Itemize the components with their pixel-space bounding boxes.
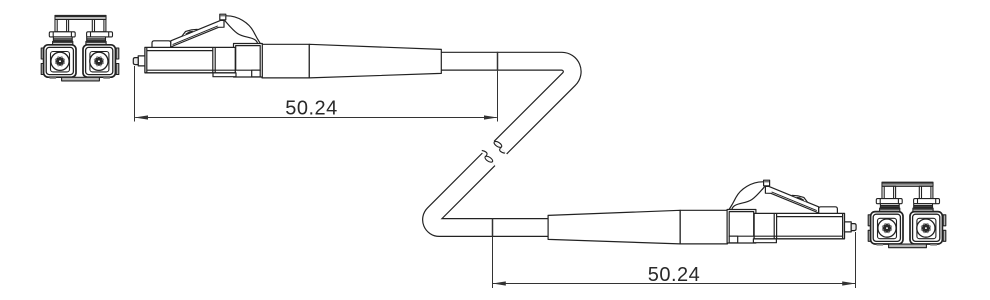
cable lower run outline: [432, 159, 549, 227]
cable upper run outline: [441, 61, 572, 147]
extension line left: [134, 66, 136, 122]
cable upper run interior: [441, 61, 572, 147]
extension line right: [855, 232, 857, 288]
cable break squiggle upper: [493, 140, 503, 148]
dimension group bottom: [493, 218, 856, 288]
dimension group top: [135, 52, 498, 122]
arrow left bottom: [493, 281, 506, 285]
arrow left top: [135, 115, 149, 119]
dimension line: [493, 283, 855, 285]
cable lower run interior: [432, 159, 549, 227]
extension line right crossing cable: [497, 52, 499, 71]
svg-text:50.24: 50.24: [285, 98, 338, 120]
extension line left crossing cable: [492, 218, 494, 236]
front view connector top-left: [41, 15, 119, 81]
front view connector bottom-right: [868, 182, 946, 248]
dimension line: [135, 117, 497, 119]
cable break squiggle lower: [484, 155, 494, 163]
top side-view connector: [133, 14, 441, 78]
svg-text:50.24: 50.24: [648, 264, 701, 286]
bottom side-view connector (mirrored): [548, 180, 856, 244]
arrow right top: [484, 115, 498, 119]
arrow right bottom: [842, 281, 855, 285]
